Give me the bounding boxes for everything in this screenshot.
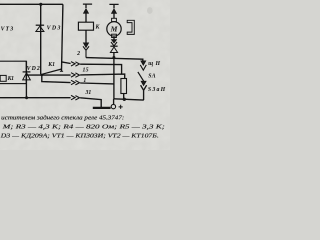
relay K1 coil core square: [0, 75, 6, 81]
connector plug arrow down right column top: [141, 61, 146, 66]
svg-text:SA: SA: [148, 74, 156, 80]
wire to plus terminal: [113, 99, 115, 105]
connector plug arrow down under motor: [111, 40, 116, 44]
node VD2 junction dot: [25, 96, 28, 99]
connector plug arrow down right column bottom: [141, 81, 146, 86]
svg-text:К1: К1: [47, 62, 55, 68]
wire motor bottom lead: [113, 38, 115, 41]
svg-text:истителем заднего стекла реле: истителем заднего стекла реле 45.3747:: [1, 114, 124, 121]
wire VD2 vertical: [25, 61, 27, 98]
node diode-motor junction dot: [112, 56, 115, 59]
wire bottom right bus: [114, 99, 144, 100]
wire resistor bottom lead: [123, 94, 125, 100]
connector socket fork under motor: [111, 42, 117, 46]
relay contact K1 blade: [42, 69, 61, 74]
ground chassis bar: [93, 107, 111, 109]
diode VD1: [110, 46, 117, 52]
relay K1 coil box: [0, 61, 26, 83]
svg-text:К1: К1: [7, 76, 14, 82]
wire row 1: [27, 74, 125, 78]
connector arrows row 31: [71, 95, 80, 100]
resistor R4: [121, 79, 127, 94]
svg-text:15: 15: [83, 68, 89, 74]
svg-text:2: 2: [76, 51, 80, 57]
connector socket T of coil column: [83, 4, 92, 8]
connector plug arrow up of coil column: [83, 9, 88, 14]
motor top terminal stub: [112, 18, 117, 21]
connector arrows row 15: [71, 62, 80, 67]
connector plug arrow down terminal 2: [83, 43, 88, 48]
node A junction dot: [39, 3, 42, 6]
switch SA blade: [138, 72, 144, 82]
connector arrows row 1: [71, 73, 80, 78]
connector plug arrow up of motor column: [111, 9, 116, 14]
wire row 15: [62, 62, 122, 74]
svg-text:31: 31: [85, 90, 92, 96]
plus sign: [119, 105, 123, 109]
motor bottom terminal stub: [112, 34, 117, 37]
svg-text:D3 — КД209А; VT1 — КП303И; V: D3 — КД209А; VT1 — КП303И; VT2 — КТ107Б.: [0, 134, 159, 140]
svg-text:М; R3 — 4,3 К; R4 — 820 Ом;: М; R3 — 4,3 К; R4 — 820 Ом; R5 — 3,3 К;: [1, 124, 164, 130]
relay coil K winding: [78, 22, 93, 30]
node pivot dot: [41, 74, 44, 77]
connector socket T of motor column: [109, 4, 118, 8]
wire coil top lead: [85, 13, 87, 22]
wire row 31 ground bus: [0, 98, 101, 107]
connector socket fork right column top: [140, 65, 146, 70]
diode VD3: [36, 25, 44, 31]
wire coil bottom lead: [85, 30, 87, 43]
svg-text:VT3: VT3: [1, 26, 14, 32]
svg-text:SЗаН: SЗаН: [148, 87, 166, 93]
motor M body: [107, 22, 121, 36]
connector socket fork terminal 2: [83, 46, 89, 57]
wire row 3: [42, 75, 114, 84]
wire VD3 branch vertical: [40, 4, 42, 74]
wire top bus: [0, 3, 63, 5]
svg-text:М: М: [110, 25, 118, 34]
svg-text:VD2: VD2: [27, 66, 40, 72]
wire right vertical from top bus to contact: [62, 4, 63, 71]
connector socket fork right column bottom: [141, 85, 147, 100]
svg-text:1: 1: [83, 78, 86, 84]
wire bus from terminal 2 to right: [86, 58, 143, 61]
wire V1 vertical diode to bottom: [113, 53, 115, 99]
stain top right: [147, 7, 153, 14]
contact foot of K1: [60, 70, 63, 72]
svg-text:VD3: VD3: [47, 26, 61, 32]
connector arrows row 3: [71, 80, 80, 85]
label wiper bracket: [127, 20, 134, 34]
wire motor top lead: [113, 13, 115, 18]
terminal circle plus: [111, 104, 115, 108]
diode VD2: [23, 72, 31, 80]
node resistor bottom junction dot: [123, 98, 126, 101]
